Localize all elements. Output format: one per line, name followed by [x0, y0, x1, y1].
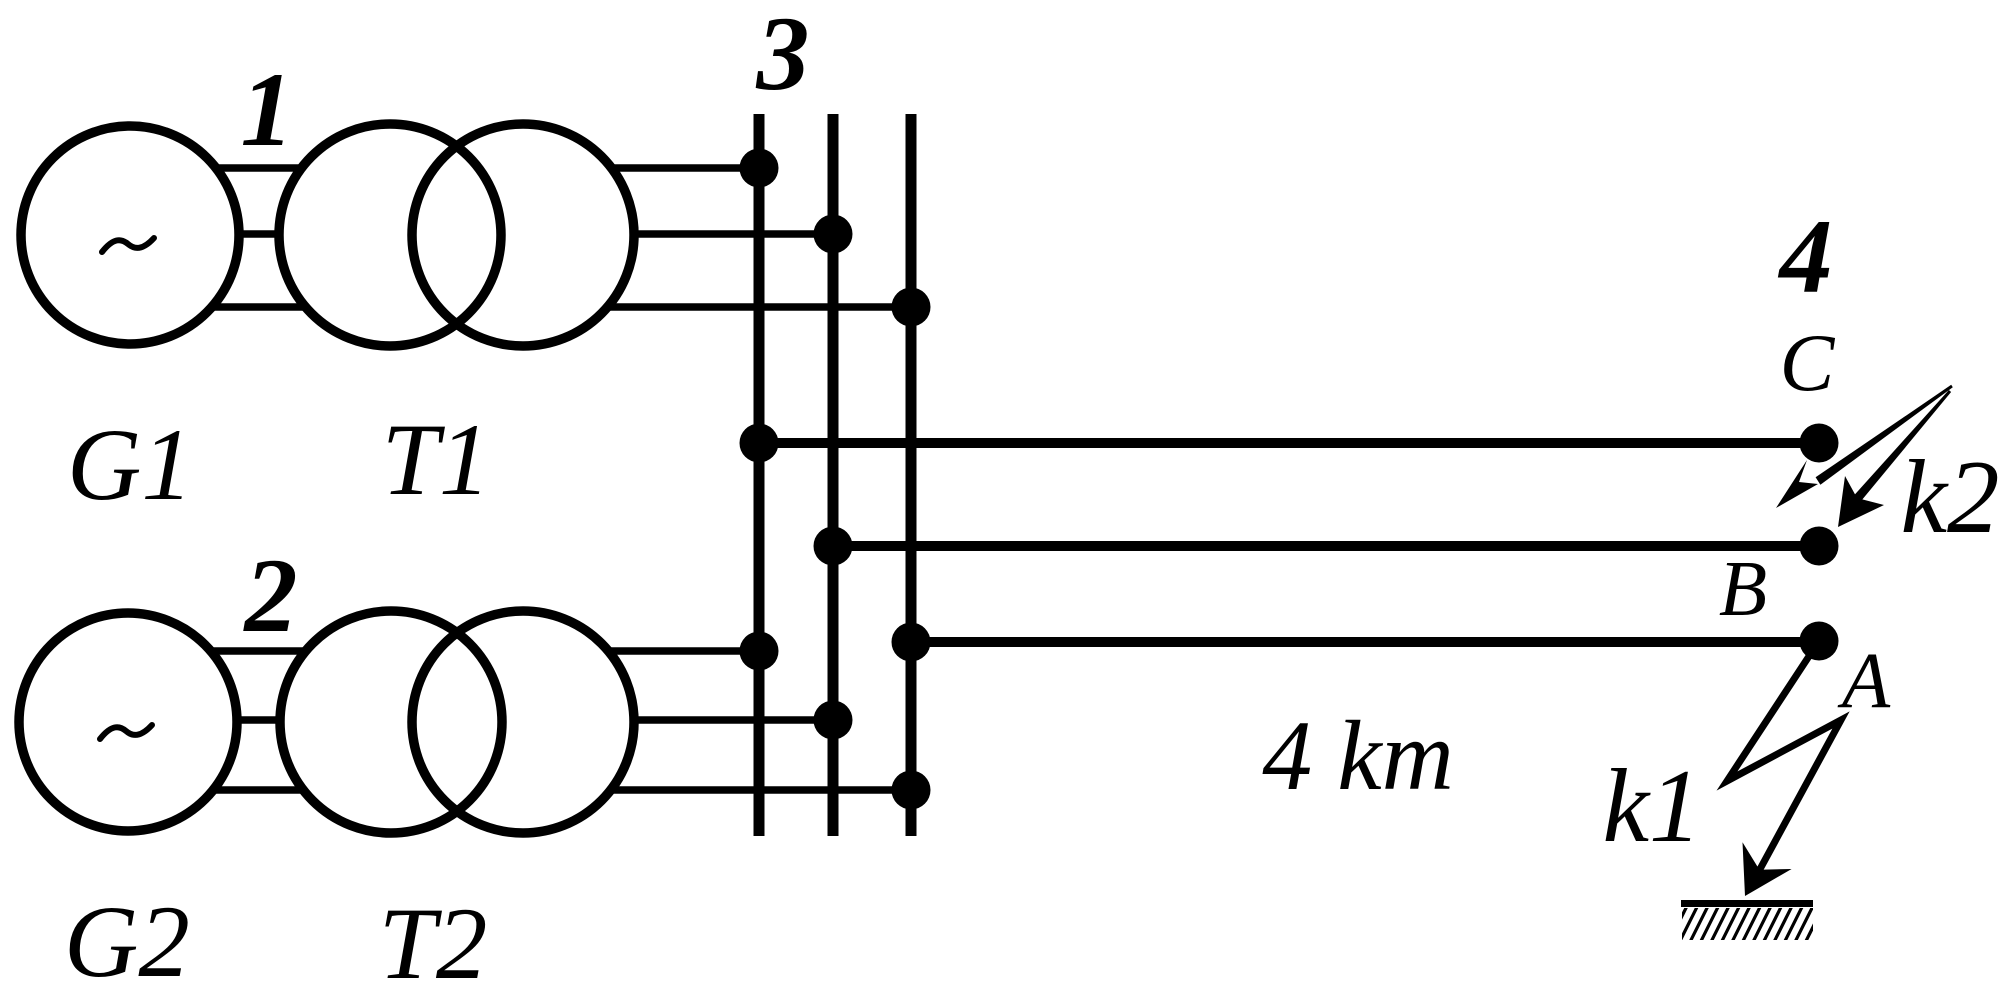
- node A end dot: [1800, 622, 1839, 661]
- node B end dot: [1800, 527, 1839, 566]
- transmission line phase B: [833, 541, 1819, 551]
- transformer T2: [280, 611, 634, 833]
- wire G2 to bus 3 (bottom phase): [128, 786, 911, 794]
- svg-text:k2: k2: [1900, 438, 1999, 555]
- junction line A-bus3: [892, 623, 931, 662]
- junction T1-bus2: [814, 215, 853, 254]
- svg-text:k1: k1: [1602, 747, 1701, 864]
- bus 3 section 1: [754, 114, 765, 836]
- junction T2-bus2: [814, 701, 853, 740]
- junction T1-bus3: [892, 288, 931, 327]
- fault k1 lightning bolt: [1727, 641, 1841, 896]
- junction T2-bus1: [740, 632, 779, 671]
- svg-text:1: 1: [241, 51, 294, 168]
- wire G2 to bus 1 (top phase): [128, 647, 759, 655]
- svg-text:T2: T2: [379, 887, 488, 1001]
- svg-text:B: B: [1719, 546, 1767, 633]
- fault k2 arrow to phase B: [1838, 390, 1951, 527]
- junction line C-bus1: [740, 424, 779, 463]
- svg-text:2: 2: [243, 537, 298, 654]
- svg-text:A: A: [1837, 638, 1891, 725]
- svg-text:T1: T1: [382, 403, 491, 517]
- ground hatch: [1668, 904, 1825, 944]
- junction T1-bus1: [740, 149, 779, 188]
- wire G2 to bus 2 (middle phase): [128, 716, 833, 724]
- svg-text:G2: G2: [64, 885, 190, 999]
- ground bar: [1681, 900, 1813, 907]
- bus 3 section 2: [828, 114, 839, 836]
- transmission line phase C: [759, 438, 1819, 448]
- bus 3 section 3: [906, 114, 917, 836]
- junction T2-bus3: [892, 771, 931, 810]
- wire G1 to bus 3 (bottom phase): [130, 303, 911, 311]
- transmission line phase A: [911, 637, 1819, 647]
- transformer T1: [279, 124, 634, 346]
- svg-text:G1: G1: [67, 408, 193, 522]
- wire G1 to bus 2 (middle phase): [130, 230, 833, 238]
- svg-text:4: 4: [1778, 198, 1833, 315]
- generator G2: [19, 613, 237, 831]
- svg-text:C: C: [1780, 317, 1836, 408]
- generator G1: [21, 126, 239, 344]
- wire G1 to bus 1 (top phase): [130, 164, 759, 172]
- svg-text:3: 3: [756, 0, 810, 112]
- junction line B-bus2: [814, 527, 853, 566]
- fault k2 arrow to phase C: [1776, 385, 1953, 508]
- svg-text:4 km: 4 km: [1262, 700, 1454, 811]
- node C end dot: [1800, 424, 1839, 463]
